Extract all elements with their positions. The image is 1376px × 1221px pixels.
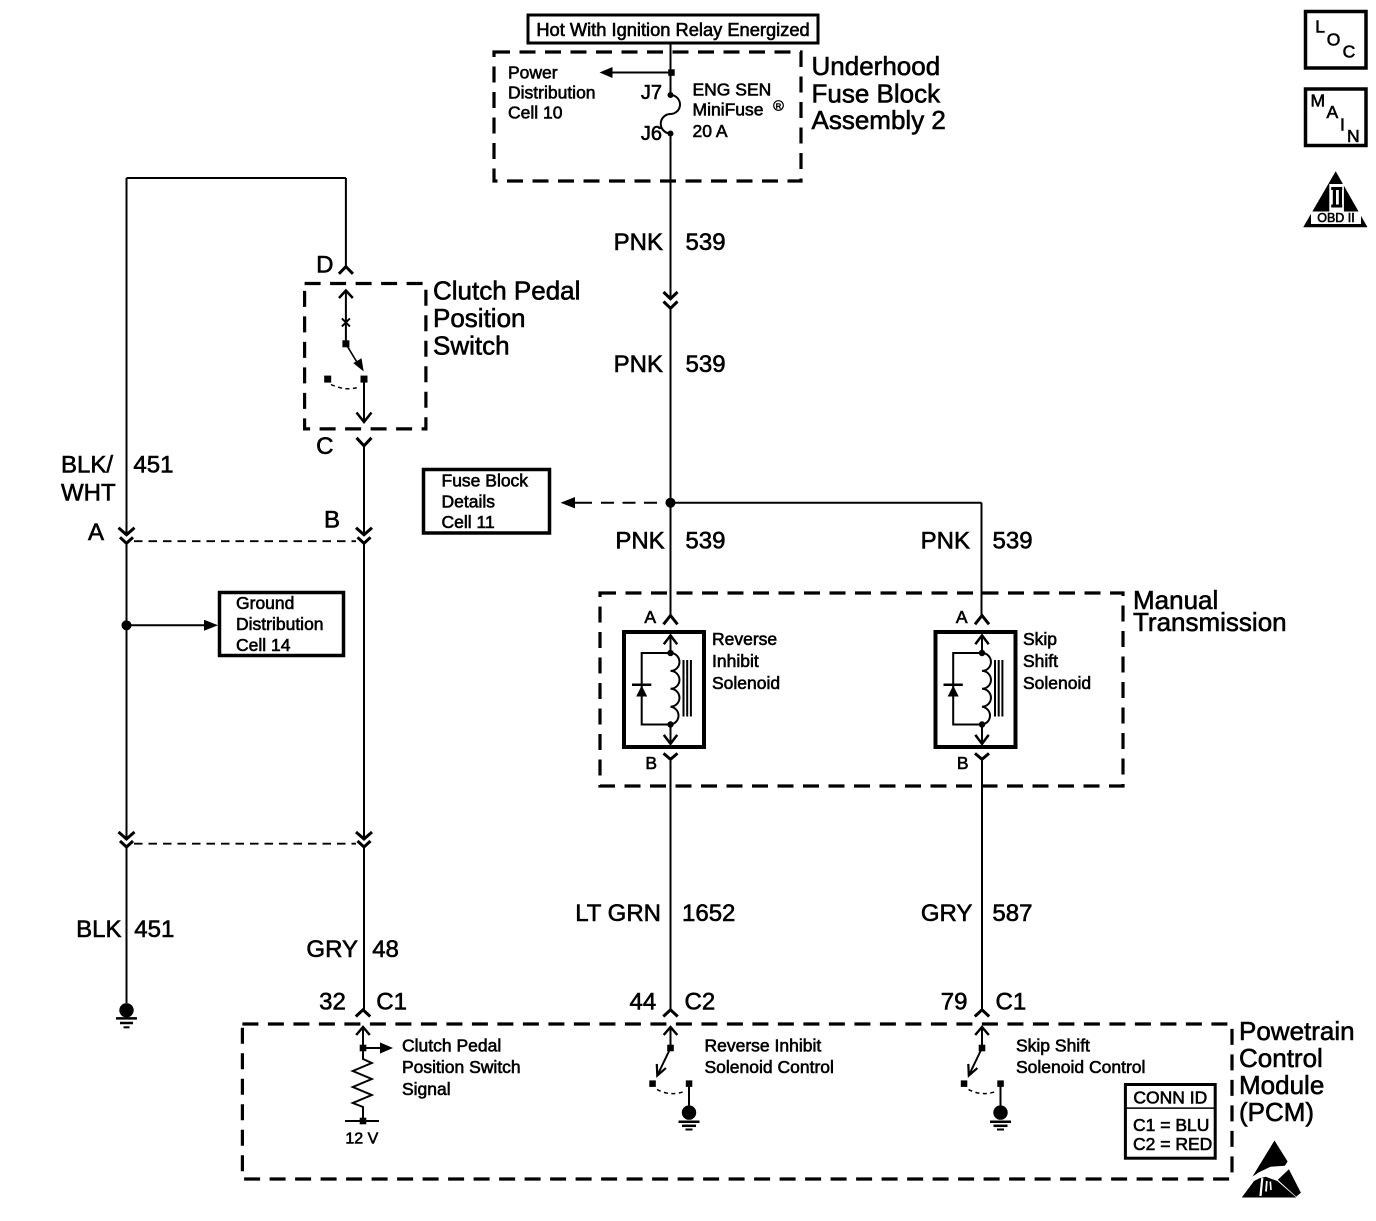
svg-text:J6: J6 bbox=[641, 123, 662, 145]
svg-text:LT GRN: LT GRN bbox=[575, 900, 661, 927]
svg-text:A: A bbox=[88, 519, 104, 546]
svg-text:MiniFuse: MiniFuse bbox=[693, 100, 764, 120]
svg-text:Shift: Shift bbox=[1023, 651, 1058, 671]
svg-text:Signal: Signal bbox=[402, 1079, 451, 1099]
svg-text:ENG SEN: ENG SEN bbox=[693, 80, 772, 100]
svg-text:I: I bbox=[1340, 115, 1345, 135]
svg-text:Powetrain: Powetrain bbox=[1239, 1016, 1355, 1046]
svg-text:GRY: GRY bbox=[921, 900, 973, 927]
svg-text:Fuse Block: Fuse Block bbox=[812, 78, 942, 108]
svg-text:PNK: PNK bbox=[615, 528, 664, 555]
svg-text:C2: C2 bbox=[685, 989, 716, 1016]
svg-text:WHT: WHT bbox=[61, 480, 116, 507]
svg-text:539: 539 bbox=[686, 229, 726, 256]
svg-text:539: 539 bbox=[686, 351, 726, 378]
svg-text:PNK: PNK bbox=[614, 229, 663, 256]
svg-text:Switch: Switch bbox=[433, 331, 510, 361]
svg-text:B: B bbox=[324, 507, 340, 534]
svg-text:451: 451 bbox=[134, 916, 174, 943]
svg-text:Power: Power bbox=[508, 63, 558, 83]
svg-text:Cell 11: Cell 11 bbox=[442, 512, 495, 532]
svg-text:12 V: 12 V bbox=[345, 1131, 378, 1148]
svg-text:Solenoid Control: Solenoid Control bbox=[705, 1057, 834, 1077]
svg-text:Hot With Ignition Relay Energi: Hot With Ignition Relay Energized bbox=[536, 19, 809, 40]
svg-text:Cell 14: Cell 14 bbox=[236, 635, 291, 655]
svg-text:D: D bbox=[316, 252, 333, 279]
svg-text:Module: Module bbox=[1239, 1070, 1324, 1100]
svg-text:Distribution: Distribution bbox=[236, 614, 324, 634]
svg-text:N: N bbox=[1347, 126, 1360, 146]
svg-text:Assembly 2: Assembly 2 bbox=[812, 105, 946, 135]
svg-text:Position Switch: Position Switch bbox=[402, 1057, 521, 1077]
svg-text:Reverse Inhibit: Reverse Inhibit bbox=[705, 1036, 822, 1056]
svg-text:539: 539 bbox=[993, 528, 1033, 555]
svg-text:Solenoid Control: Solenoid Control bbox=[1016, 1057, 1145, 1077]
svg-text:44: 44 bbox=[629, 989, 656, 1016]
svg-text:PNK: PNK bbox=[921, 528, 970, 555]
svg-text:PNK: PNK bbox=[614, 351, 663, 378]
svg-text:Distribution: Distribution bbox=[508, 83, 596, 103]
svg-text:451: 451 bbox=[133, 452, 173, 479]
svg-text:A: A bbox=[956, 607, 968, 627]
svg-text:Transmission: Transmission bbox=[1133, 607, 1287, 637]
svg-text:Ground: Ground bbox=[236, 593, 294, 613]
svg-text:Clutch Pedal: Clutch Pedal bbox=[402, 1036, 501, 1056]
svg-text:1652: 1652 bbox=[682, 900, 735, 927]
svg-text:Inhibit: Inhibit bbox=[712, 651, 759, 671]
svg-text:C: C bbox=[316, 433, 333, 460]
svg-text:C2 = RED: C2 = RED bbox=[1133, 1134, 1212, 1154]
svg-text:(PCM): (PCM) bbox=[1239, 1097, 1314, 1127]
svg-text:C1: C1 bbox=[376, 989, 407, 1016]
svg-text:Skip Shift: Skip Shift bbox=[1016, 1036, 1090, 1056]
svg-text:R: R bbox=[776, 101, 782, 110]
svg-text:Control: Control bbox=[1239, 1043, 1323, 1073]
svg-text:Clutch Pedal: Clutch Pedal bbox=[433, 276, 580, 306]
svg-text:GRY: GRY bbox=[306, 936, 358, 963]
svg-text:539: 539 bbox=[685, 528, 725, 555]
svg-text:Underhood: Underhood bbox=[812, 51, 941, 81]
svg-text:79: 79 bbox=[941, 989, 968, 1016]
svg-text:Skip: Skip bbox=[1023, 629, 1057, 649]
svg-text:C1: C1 bbox=[996, 989, 1027, 1016]
svg-text:Reverse: Reverse bbox=[712, 629, 777, 649]
svg-text:B: B bbox=[645, 753, 657, 773]
svg-text:Details: Details bbox=[442, 492, 496, 512]
svg-text:20 A: 20 A bbox=[693, 121, 728, 141]
svg-text:CONN ID: CONN ID bbox=[1133, 1088, 1207, 1108]
svg-text:OBD II: OBD II bbox=[1317, 211, 1355, 225]
svg-text:BLK: BLK bbox=[76, 916, 121, 943]
svg-text:M: M bbox=[1311, 91, 1326, 111]
svg-text:A: A bbox=[644, 607, 656, 627]
svg-text:32: 32 bbox=[319, 989, 346, 1016]
svg-text:Solenoid: Solenoid bbox=[1023, 673, 1091, 693]
svg-text:Fuse Block: Fuse Block bbox=[442, 471, 529, 491]
svg-text:O: O bbox=[1327, 30, 1341, 50]
svg-text:B: B bbox=[957, 753, 969, 773]
svg-text:C: C bbox=[1343, 42, 1356, 62]
svg-text:C1 = BLU: C1 = BLU bbox=[1133, 1115, 1209, 1135]
svg-text:587: 587 bbox=[992, 900, 1032, 927]
svg-text:48: 48 bbox=[372, 936, 399, 963]
svg-text:J7: J7 bbox=[641, 82, 662, 104]
svg-text:L: L bbox=[1315, 16, 1325, 36]
svg-text:A: A bbox=[1327, 102, 1339, 122]
svg-text:Cell 10: Cell 10 bbox=[508, 103, 563, 123]
svg-text:BLK/: BLK/ bbox=[61, 452, 113, 479]
svg-text:Solenoid: Solenoid bbox=[712, 673, 780, 693]
svg-text:Position: Position bbox=[433, 303, 526, 333]
